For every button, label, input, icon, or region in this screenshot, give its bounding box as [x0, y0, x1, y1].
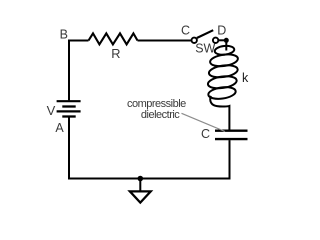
svg-text:B: B: [60, 28, 68, 42]
svg-text:D: D: [217, 24, 226, 38]
junction dot: [224, 38, 229, 43]
inductor k (coil): [207, 45, 238, 130]
wire: junction stem into coil: [225, 40, 227, 50]
switch SW lever: [197, 30, 213, 38]
battery V plate 2 (short): [62, 105, 75, 107]
ground: [130, 191, 151, 202]
capacitor C top plate: [215, 129, 248, 131]
svg-text:R: R: [111, 46, 120, 61]
leader line to dielectric: [182, 113, 226, 131]
svg-text:SW: SW: [195, 41, 215, 55]
svg-text:C: C: [201, 127, 210, 141]
wire: resistor to switch: [138, 40, 192, 42]
svg-text:A: A: [55, 121, 64, 135]
svg-text:k: k: [242, 71, 249, 85]
ground junction dot: [138, 176, 144, 182]
wire: contact D to junction: [218, 39, 226, 41]
svg-text:V: V: [47, 103, 56, 118]
switch SW contact D: [213, 38, 218, 43]
svg-text:C: C: [181, 24, 190, 38]
ground stem: [139, 179, 141, 192]
svg-text:compressible: compressible: [127, 98, 186, 110]
capacitor C bottom plate: [215, 138, 248, 140]
battery V plate 1 (long): [57, 100, 81, 102]
battery V plate 3 (long): [57, 110, 81, 112]
resistor R: [89, 33, 138, 44]
wire: top-left corner to resistor: [69, 41, 89, 101]
svg-text:dielectric: dielectric: [141, 109, 180, 121]
battery V plate 4 (short): [62, 115, 75, 117]
switch SW contact C: [192, 38, 197, 43]
wire: bottom rail (capacitor to battery): [69, 117, 230, 179]
